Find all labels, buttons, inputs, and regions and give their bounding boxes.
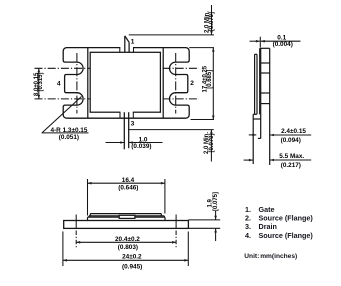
ceramic cap (top view) [90,52,160,112]
dimension 16.4 [88,182,165,185]
svg-text:Unit:: Unit: [244,253,259,260]
svg-text:3: 3 [131,121,135,128]
bottom view cap [90,214,161,216]
svg-text:(0.646): (0.646) [118,184,138,191]
svg-text:mm(inches): mm(inches) [260,253,297,260]
lead pin 3 (drain) [124,112,128,149]
dimension 16.4 extension lines [88,179,165,216]
svg-text:(0.094): (0.094) [281,137,301,144]
dimension 2.0 Min bottom [210,130,213,162]
slot centerlines horizontal (top view, dash-dot) [35,68,200,99]
extension line flange top right [189,47,214,49]
svg-text:[0.315]: [0.315] [38,72,44,91]
svg-text:4.: 4. [245,231,251,240]
svg-text:Gate: Gate [259,205,275,214]
svg-text:[0.079]: [0.079] [209,133,215,152]
bottom view cap tab marking [119,215,135,218]
svg-text:[0.079]: [0.079] [209,12,215,31]
bottom view ceramic ring [89,216,164,217]
svg-text:20.4±0.2: 20.4±0.2 [115,236,140,243]
hole centerlines vertical (top view, dash-dot) [77,53,176,114]
flange end extension lines for 24 dim [63,232,188,267]
svg-text:4-R 1.3±0.15: 4-R 1.3±0.15 [51,127,88,134]
side view body column [253,48,270,165]
dimension 17.4±0.25 [212,48,215,120]
flange face extension lines right [188,220,220,228]
svg-text:5.5 Max.: 5.5 Max. [279,153,304,160]
svg-text:1.: 1. [245,205,251,214]
lead pad gap pin 1 [120,47,134,53]
dimension 24±0.2 [63,259,188,262]
side view flange plate [253,54,257,164]
svg-text:(0.039): (0.039) [131,143,151,150]
svg-text:Source (Flange): Source (Flange) [259,231,314,240]
svg-text:Drain: Drain [259,222,277,231]
svg-text:16.4: 16.4 [122,177,135,184]
bottom view hole centerlines (dash-dot) [76,215,176,230]
svg-text:[0.075]: [0.075] [213,192,219,211]
bottom view flange bar [64,221,189,229]
dimension 20.4±0.2 [76,241,176,244]
extension line lead 3 minimum [129,129,214,131]
leader 4-R 1.3 [42,97,89,133]
side view cap face [259,48,261,114]
lead pad gap pin 3 [120,111,133,118]
svg-text:2: 2 [190,80,194,87]
svg-text:Source (Flange): Source (Flange) [259,214,314,223]
svg-text:3.: 3. [245,222,251,231]
svg-text:(0.803): (0.803) [118,244,138,251]
ceramic base edges (top view) [88,48,163,119]
svg-text:(0.217): (0.217) [281,162,301,169]
dimension 2.4±0.15 [249,134,311,137]
dimension 2.0 Min top [210,5,213,35]
svg-text:2.: 2. [245,214,251,223]
svg-text:2.4±0.15: 2.4±0.15 [281,128,306,135]
dimension 1.9 flange thickness [214,211,217,241]
svg-text:(0.051): (0.051) [59,134,79,141]
extension line flange bottom right [191,119,215,121]
svg-text:[0.685]: [0.685] [207,70,213,89]
dimension 0.1 [250,37,301,48]
dimension 1.0 lead width [106,141,163,144]
svg-text:(0.004): (0.004) [273,41,293,48]
top view flange outline with 4 mounting slots [63,48,189,119]
svg-text:24±0.2: 24±0.2 [122,253,142,260]
dimension 5.5 Max [244,159,312,162]
bottom view ceramic base [88,217,166,220]
dimension 8.0±0.15 [38,68,41,99]
svg-text:(0.945): (0.945) [122,263,142,270]
svg-text:1: 1 [131,39,135,46]
extension line from lead 1 tip [129,34,214,36]
svg-text:4: 4 [57,80,61,87]
lead pin 1 (gate) [125,36,129,52]
